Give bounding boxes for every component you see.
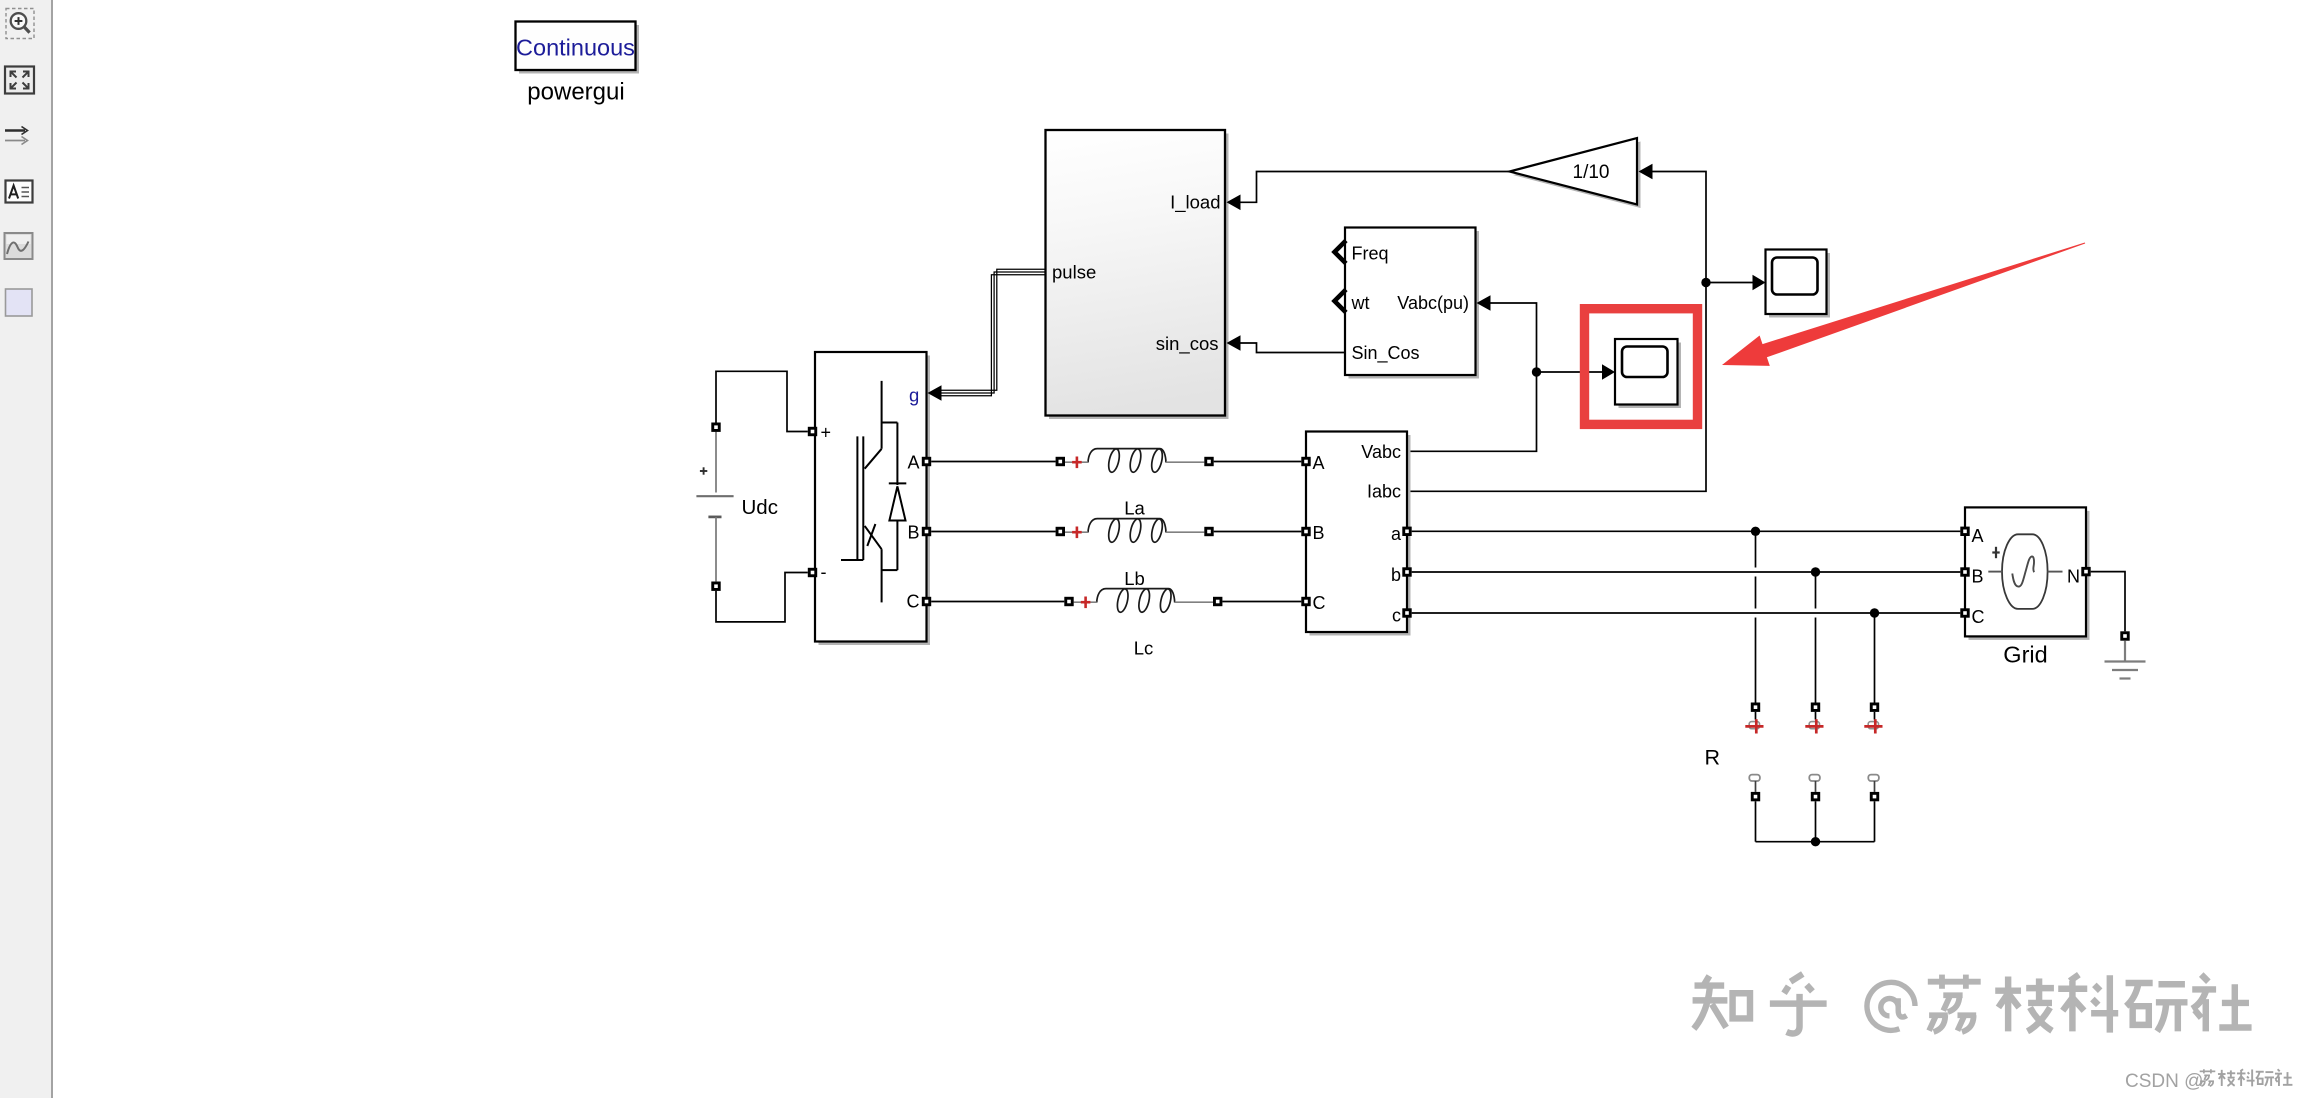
- svg-text:-: -: [821, 562, 827, 582]
- R load element phase c: [1864, 703, 1882, 842]
- svg-text:a: a: [1391, 524, 1402, 544]
- svg-text:B: B: [1313, 523, 1325, 543]
- watermark zhihu text: [1693, 974, 2252, 1034]
- junction dot to scope2: [1532, 367, 1541, 376]
- pulse vector wire (triple line) to g: [941, 269, 1046, 396]
- svg-text:A: A: [1313, 453, 1325, 473]
- left toolbar panel: [0, 0, 52, 1098]
- wire La to measurement A: [1214, 461, 1302, 463]
- Grid source block: [1965, 507, 2090, 640]
- svg-text:powergui: powergui: [527, 79, 624, 106]
- three-phase V-I measurement block: [1306, 432, 1411, 636]
- svg-text:1/10: 1/10: [1573, 162, 1610, 183]
- wire to scope2: [1537, 371, 1604, 373]
- csdn watermark: [2125, 1069, 2292, 1092]
- scope2 input arrowhead: [1602, 364, 1615, 380]
- powergui block: [516, 22, 640, 74]
- svg-text:Udc: Udc: [742, 496, 778, 519]
- Vabc(pu) input arrowhead: [1477, 295, 1491, 311]
- wire phase a to grid A: [1412, 530, 1961, 532]
- wire gain output to I_load: [1241, 172, 1510, 203]
- red annotation arrow: [1722, 243, 2085, 366]
- g input arrowhead: [928, 385, 942, 401]
- wire Udc- to converter -: [716, 573, 808, 622]
- svg-text:Continuous: Continuous: [516, 35, 635, 61]
- svg-text:Freq: Freq: [1352, 244, 1389, 264]
- converter IGBT/diode icon: [841, 381, 906, 603]
- Grid N output pad: [2081, 567, 2090, 576]
- svg-text:wt: wt: [1351, 293, 1370, 313]
- wire Vabc measurement up to Vabc(pu): [1407, 303, 1537, 451]
- svg-text:A: A: [1972, 526, 1984, 546]
- neutral bus of R load: [1756, 841, 1875, 843]
- Freq unconnected input chevron: [1335, 241, 1347, 264]
- Udc DC source: [696, 432, 733, 582]
- ground pad: [2120, 631, 2129, 640]
- converter pad -: [808, 568, 817, 577]
- wt unconnected input chevron: [1335, 290, 1347, 313]
- toolbar icon: image curve: [5, 233, 33, 259]
- converter pad B: [922, 527, 931, 536]
- toolbar icon: blank block: [6, 289, 33, 316]
- wire to scope1: [1706, 282, 1753, 284]
- svg-text:g: g: [909, 385, 919, 406]
- svg-text:pulse: pulse: [1052, 262, 1096, 283]
- svg-text:Grid: Grid: [2003, 642, 2047, 668]
- measurement pad C: [1301, 597, 1310, 606]
- measurement pad c: [1402, 608, 1411, 617]
- inductor La: [1056, 448, 1214, 473]
- wire Sin_Cos to sin_cos: [1241, 343, 1346, 353]
- red highlight rectangle: [1585, 309, 1698, 425]
- toolbar icon: signal arrows: [5, 127, 28, 145]
- R load element phase b: [1805, 703, 1823, 842]
- svg-text:Vabc: Vabc: [1361, 442, 1401, 462]
- universal bridge converter block: [815, 352, 930, 645]
- gain block 1/10: [1510, 138, 1641, 208]
- svg-text:N: N: [2067, 567, 2080, 587]
- svg-text:+: +: [821, 423, 832, 443]
- wire bus from Iabc up to gain: [1407, 172, 1706, 492]
- inductor Lc: [1064, 588, 1222, 613]
- Grid pad B: [1960, 567, 1969, 576]
- svg-text:C: C: [1972, 607, 1985, 627]
- svg-text:I_load: I_load: [1170, 192, 1220, 214]
- gain input arrowhead: [1639, 164, 1653, 180]
- svg-text:B: B: [1972, 567, 1984, 587]
- neutral bus junction dot: [1811, 837, 1820, 846]
- R branch drop wire phase a: [1755, 536, 1757, 703]
- scope2 block: [1615, 339, 1681, 408]
- wire converter B to Lb: [931, 531, 1055, 533]
- svg-text:sin_cos: sin_cos: [1156, 333, 1219, 355]
- svg-text:c: c: [1392, 606, 1401, 626]
- measurement pad a: [1402, 527, 1411, 536]
- ground symbol: [2105, 641, 2146, 679]
- measurement pad B: [1301, 527, 1310, 536]
- svg-text:C: C: [1313, 593, 1326, 613]
- Grid pad A: [1960, 527, 1969, 536]
- Vabc(pu) block (dq to abc): [1345, 228, 1479, 379]
- svg-text:Sin_Cos: Sin_Cos: [1352, 343, 1420, 364]
- svg-text:B: B: [907, 523, 919, 543]
- input arrowhead I_load: [1227, 195, 1241, 211]
- R branch drop wire phase b: [1815, 577, 1817, 703]
- wire Lc to measurement C: [1222, 601, 1301, 603]
- scope1 input arrowhead: [1753, 275, 1766, 291]
- wire converter C to Lc: [931, 601, 1064, 603]
- input arrowhead sin_cos: [1227, 335, 1241, 351]
- toolbar icon: fit-to-view: [5, 67, 34, 94]
- junction dot phase b: [1811, 567, 1820, 576]
- svg-text:La: La: [1124, 498, 1145, 519]
- R load element phase a: [1745, 703, 1763, 842]
- R branch drop wire phase c: [1874, 618, 1876, 703]
- converter pad C: [922, 597, 931, 606]
- toolbar icon: annotation A: [6, 181, 33, 203]
- svg-text:Lc: Lc: [1134, 638, 1154, 659]
- Grid pad C: [1960, 608, 1969, 617]
- scope1 block: [1766, 250, 1831, 318]
- controller subsystem block: [1046, 130, 1229, 419]
- svg-text:Vabc(pu): Vabc(pu): [1397, 293, 1469, 313]
- svg-text:b: b: [1391, 565, 1401, 585]
- converter pad A: [922, 457, 931, 466]
- toolbar icon: zoom magnifier: [6, 9, 34, 39]
- wire Udc+ to converter +: [716, 371, 808, 431]
- svg-text:CSDN @: CSDN @: [2125, 1071, 2203, 1092]
- measurement pad b: [1402, 567, 1411, 576]
- wire phase b to grid B: [1412, 571, 1961, 573]
- Udc pad -: [711, 582, 720, 591]
- wire Lb to measurement B: [1214, 531, 1302, 533]
- junction dot phase c: [1870, 608, 1879, 617]
- Udc pad +: [711, 423, 720, 432]
- wire phase c to grid C: [1412, 612, 1961, 614]
- svg-text:Iabc: Iabc: [1367, 482, 1401, 502]
- svg-text:R: R: [1705, 746, 1721, 770]
- junction dot to scope1: [1701, 278, 1710, 287]
- svg-text:A: A: [907, 453, 919, 473]
- junction dot phase a: [1751, 527, 1760, 536]
- measurement pad A: [1301, 457, 1310, 466]
- wire converter A to La: [931, 461, 1055, 463]
- svg-text:Lb: Lb: [1124, 568, 1145, 589]
- converter pad +: [808, 427, 817, 436]
- svg-text:C: C: [907, 592, 920, 612]
- wire N to ground: [2091, 572, 2125, 632]
- inductor Lb: [1056, 518, 1214, 543]
